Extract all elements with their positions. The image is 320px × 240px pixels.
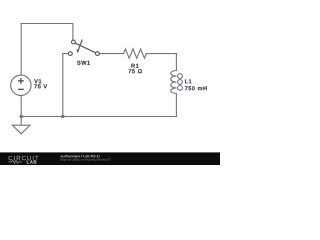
logo wave xyxy=(9,160,23,163)
wire switch right to resistor xyxy=(100,53,124,55)
wire inductor bottom xyxy=(175,94,177,117)
label 750 mH xyxy=(185,86,207,90)
node junction switch-bus xyxy=(61,115,64,118)
wire left vertical to V1 xyxy=(20,24,22,76)
watermark bar xyxy=(0,152,220,165)
wire V1 bottom xyxy=(20,96,22,117)
label R1 xyxy=(131,64,138,68)
label 75 ohm xyxy=(129,69,142,73)
label V1 xyxy=(34,79,41,83)
node junction V1-bus xyxy=(20,115,23,118)
wire switch top vertical xyxy=(72,24,74,40)
wire top horizontal xyxy=(21,23,73,25)
label L1 xyxy=(185,79,192,83)
voltage source V1 xyxy=(11,75,31,95)
inductor L1 xyxy=(171,71,183,94)
wire resistor to right corner xyxy=(146,54,176,71)
ground xyxy=(12,117,30,134)
switch SW1 xyxy=(68,40,99,56)
wire bottom bus xyxy=(21,116,176,118)
credit line 2 xyxy=(61,158,111,161)
credit line 1 xyxy=(61,155,100,158)
resistor R1 xyxy=(124,49,147,58)
label SW1 xyxy=(77,61,90,65)
label 75 V xyxy=(34,84,47,88)
logo CIRCUIT xyxy=(9,156,39,160)
logo LAB xyxy=(27,160,37,163)
wire switch left branch down xyxy=(63,54,68,117)
